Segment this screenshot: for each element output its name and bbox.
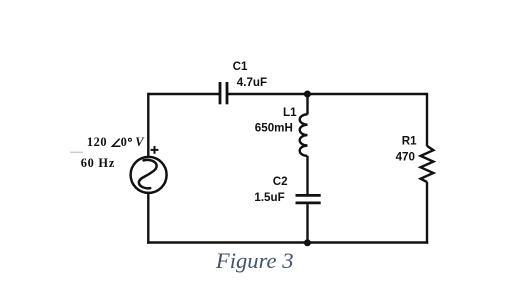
svg-text:4.7uF: 4.7uF — [237, 76, 267, 89]
label 120 angle 0 V — [81, 135, 146, 170]
wire middle between L1 and C2 — [306, 156, 308, 194]
capacitor C2 — [254, 175, 320, 204]
wire bottom — [147, 241, 428, 243]
wire middle upper — [306, 94, 308, 115]
wire top-right segment — [228, 93, 427, 95]
svg-text:C1: C1 — [233, 60, 248, 73]
svg-text:Figure 3: Figure 3 — [215, 248, 294, 273]
svg-text:C2: C2 — [273, 175, 288, 188]
resistor R1 — [396, 134, 434, 182]
svg-text:0: 0 — [121, 135, 127, 149]
svg-text:650mH: 650mH — [255, 121, 293, 134]
svg-text:60 Hz: 60 Hz — [81, 156, 115, 170]
svg-text:R1: R1 — [402, 134, 417, 147]
node bottom junction — [304, 239, 311, 246]
capacitor C1 — [220, 60, 267, 104]
wire right vertical lower — [426, 182, 428, 244]
svg-text:L1: L1 — [283, 106, 297, 119]
faint artifact dash — [70, 151, 83, 153]
wire top-left segment — [148, 93, 220, 95]
wire right vertical upper — [426, 93, 428, 146]
svg-text:1.5uF: 1.5uF — [254, 191, 284, 204]
svg-text:470: 470 — [396, 151, 415, 164]
wire left vertical upper — [147, 93, 149, 158]
svg-text:V: V — [135, 135, 145, 149]
source V1 — [131, 146, 167, 193]
node top junction — [304, 91, 311, 98]
wire left vertical lower — [147, 193, 149, 244]
wire middle lower — [306, 204, 308, 242]
inductor L1 — [255, 106, 308, 156]
svg-text:120: 120 — [87, 135, 107, 149]
